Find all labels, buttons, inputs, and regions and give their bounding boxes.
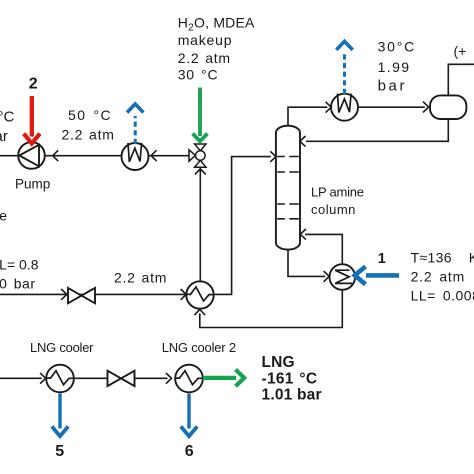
svg-text:Pump: Pump [15, 176, 50, 191]
svg-text:1: 1 [378, 251, 386, 267]
svg-text:LNG cooler 2: LNG cooler 2 [162, 340, 236, 355]
svg-text:2.2 atm: 2.2 atm [178, 50, 231, 66]
svg-text:2: 2 [29, 75, 38, 92]
svg-text:LNG: LNG [262, 354, 295, 371]
svg-text:ar: ar [0, 128, 8, 145]
svg-text:LP amine: LP amine [311, 184, 364, 199]
svg-text:column: column [311, 202, 356, 217]
svg-text:30 °C: 30 °C [178, 67, 219, 83]
svg-text:1.01 bar: 1.01 bar [262, 387, 322, 404]
svg-text:T≈136: T≈136 [411, 250, 452, 266]
svg-text:K: K [469, 250, 474, 266]
svg-text:50 °C: 50 °C [68, 107, 112, 123]
svg-text:20 bar: 20 bar [0, 276, 36, 292]
svg-text:-161 °C: -161 °C [262, 370, 318, 387]
svg-text:e: e [0, 208, 7, 224]
svg-text:LL= 0.008: LL= 0.008 [411, 288, 474, 304]
svg-text:makeup: makeup [178, 32, 233, 48]
svg-text:(+: (+ [454, 43, 467, 59]
svg-text:30°C: 30°C [378, 38, 416, 54]
svg-text:6: 6 [185, 443, 194, 460]
svg-text:2.2 atm: 2.2 atm [411, 269, 466, 285]
svg-text:bar: bar [378, 77, 407, 94]
svg-text:2.2 atm: 2.2 atm [114, 269, 167, 285]
svg-text:°C: °C [0, 109, 14, 126]
svg-text:5: 5 [55, 443, 64, 460]
svg-text:2.2 atm: 2.2 atm [62, 126, 115, 142]
svg-text:1.99: 1.99 [378, 59, 411, 75]
svg-text:LNG cooler: LNG cooler [30, 340, 94, 355]
svg-text:LL= 0.8: LL= 0.8 [0, 256, 39, 272]
